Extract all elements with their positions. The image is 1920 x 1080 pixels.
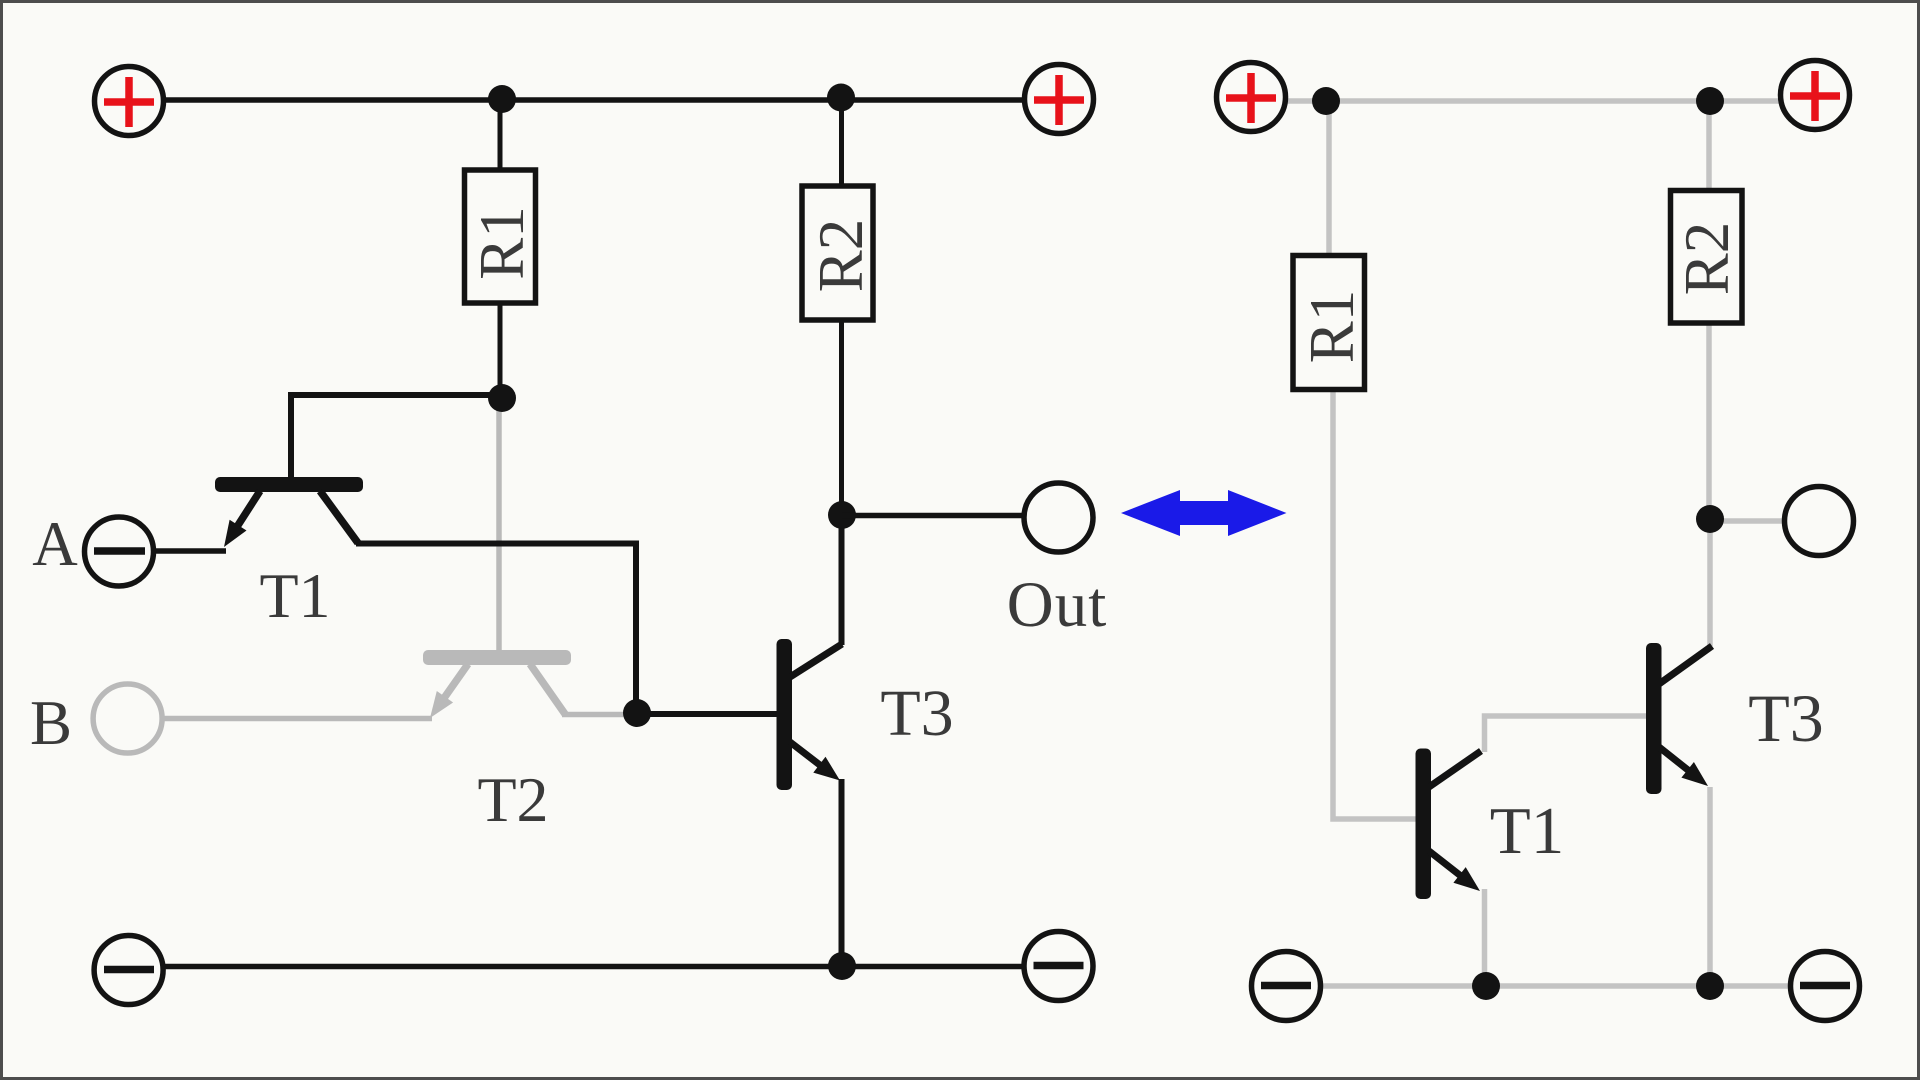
svg-text:T1: T1 xyxy=(259,560,330,631)
svg-text:B: B xyxy=(30,688,72,758)
wire R2 top right xyxy=(1706,101,1712,192)
node junction top rail R1 xyxy=(488,85,516,113)
wire R1 bottom xyxy=(498,303,503,398)
terminal input A xyxy=(85,517,154,586)
node junction bottom T1 right xyxy=(1472,972,1500,1000)
node junction T3 base xyxy=(623,699,651,727)
transistor T1 xyxy=(215,477,363,547)
wire T1 base vertical xyxy=(288,392,294,480)
wire R1 top right xyxy=(1326,101,1332,257)
terminal + V+ right xyxy=(1025,65,1094,134)
wire T1 collector horizontal xyxy=(356,541,639,547)
node junction top R1 right xyxy=(1312,87,1340,115)
wire top rail right xyxy=(1287,98,1780,104)
wire input B (gray) xyxy=(163,716,432,722)
wire T2 base (gray) xyxy=(496,398,502,652)
wire top rail xyxy=(165,97,1023,103)
terminal minus V- right xyxy=(1024,932,1093,1001)
svg-text:T3: T3 xyxy=(1748,680,1824,756)
node junction R1 T2 base xyxy=(488,384,516,412)
transistor T3 xyxy=(777,639,843,790)
terminal input B (gray) xyxy=(93,684,162,753)
terminal Out xyxy=(1024,483,1093,552)
wire input A xyxy=(154,548,226,554)
wire T1 collector to T3 base right xyxy=(1485,716,1648,752)
terminal + V+ left xyxy=(95,67,164,136)
wire T3 base xyxy=(637,711,777,717)
terminal out right xyxy=(1785,487,1854,556)
node junction bottom T3 right xyxy=(1696,972,1724,1000)
wire T3 collector vertical xyxy=(839,515,845,645)
terminal + right circuit left xyxy=(1217,63,1286,132)
node junction Out xyxy=(828,501,856,529)
svg-text:T1: T1 xyxy=(1490,794,1564,868)
svg-text:R1: R1 xyxy=(467,206,537,280)
resistor R2 xyxy=(802,186,876,320)
wire R2 bottom right xyxy=(1706,323,1712,519)
terminal minus right circuit right xyxy=(1791,952,1860,1021)
svg-text:A: A xyxy=(32,509,78,579)
wire out right xyxy=(1710,518,1786,524)
resistor R2 right xyxy=(1671,191,1743,324)
svg-text:T2: T2 xyxy=(477,764,548,835)
wire bottom rail xyxy=(165,964,1022,970)
transistor T2 (gray) xyxy=(423,650,571,718)
wire T3 collector right xyxy=(1707,519,1713,646)
wire bottom rail right xyxy=(1322,983,1790,989)
wire T2 collector to node (gray) xyxy=(562,712,640,718)
terminal + right circuit right xyxy=(1781,61,1850,130)
symbol equivalence arrow xyxy=(1121,490,1287,536)
wire R2 top xyxy=(839,100,844,188)
terminal minus right circuit left xyxy=(1252,952,1321,1021)
wire T1 collector vertical xyxy=(633,544,639,714)
transistor T3 right xyxy=(1646,643,1712,794)
node junction bottom rail xyxy=(828,952,856,980)
wire T3 emitter vertical xyxy=(839,779,845,966)
node junction top rail R2 xyxy=(827,84,855,112)
wire R1 bottom to T1 base right xyxy=(1333,390,1416,820)
node junction out right xyxy=(1696,505,1724,533)
wire R1 top xyxy=(498,100,503,172)
wire Out xyxy=(842,513,1023,519)
svg-text:R2: R2 xyxy=(806,219,876,293)
svg-text:Out: Out xyxy=(1007,569,1108,641)
wire R2 bottom xyxy=(839,320,844,515)
resistor R1 xyxy=(465,170,538,303)
svg-text:T3: T3 xyxy=(880,677,953,750)
resistor R1 right xyxy=(1293,256,1367,390)
terminal minus V- left xyxy=(94,936,163,1005)
wire T3 emitter right xyxy=(1707,787,1713,986)
transistor T1 right xyxy=(1416,749,1482,900)
wire T1 emitter right xyxy=(1482,889,1488,986)
svg-text:R1: R1 xyxy=(1297,290,1367,364)
svg-text:R2: R2 xyxy=(1672,222,1742,296)
node junction top R2 right xyxy=(1696,87,1724,115)
wire T1 base horizontal xyxy=(291,392,500,398)
